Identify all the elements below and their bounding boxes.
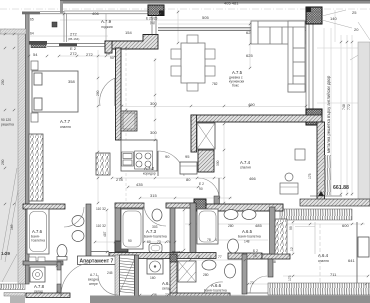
svg-text:А.7.7: А.7.7: [60, 119, 71, 124]
slab band top-left: [22, 12, 40, 15]
loggia right edge line: [105, 14, 107, 42]
sink A.7.3: [149, 244, 162, 253]
dark block A.7.3 corner: [115, 241, 128, 252]
wardrobe X closet at corridor: [197, 123, 215, 149]
svg-text:А.7.4: А.7.4: [240, 160, 251, 165]
right terrain strip: [358, 42, 370, 202]
toilet A.7.6: [57, 245, 67, 258]
bidet A.7.6: [72, 231, 84, 242]
svg-text:173: 173: [288, 275, 292, 281]
wall right of A.7.3: [170, 208, 175, 253]
A.6.6 bottom wall: [170, 293, 230, 298]
staircase left hatch: [115, 255, 120, 303]
A.6.4 bottom wall line: [246, 292, 370, 294]
column right-top: [306, 7, 322, 24]
ground slab under court: [300, 199, 370, 206]
svg-text:64: 64: [30, 32, 34, 36]
sinks A.6.5: [224, 210, 238, 220]
svg-text:272: 272: [70, 51, 77, 56]
svg-text:303: 303: [152, 225, 158, 229]
terrain top cap: [0, 29, 26, 34]
toilet A.6.5: [228, 239, 239, 253]
svg-text:А.7.8: А.7.8: [34, 284, 45, 289]
sofa L-shape: [251, 21, 305, 92]
svg-text:435: 435: [136, 182, 143, 187]
window grate hatch right of wall: [325, 155, 332, 195]
wall right of A.7.6: [86, 204, 91, 261]
dressing table A74: [280, 183, 298, 194]
svg-text:70: 70: [196, 255, 200, 259]
wall top of A.7.6: [23, 204, 65, 209]
svg-text:175: 175: [308, 173, 312, 179]
svg-text:входно: входно: [88, 278, 99, 282]
door arc A.7.3: [144, 204, 166, 226]
svg-text:антре: антре: [89, 282, 98, 286]
svg-text:487: 487: [103, 231, 107, 237]
right window wall glazing: [306, 24, 313, 110]
svg-text:490: 490: [248, 102, 255, 107]
svg-text:272: 272: [70, 32, 77, 37]
svg-text:метална решетка върху английск: метална решетка върху английски двор: [326, 75, 331, 153]
svg-text:77: 77: [176, 255, 180, 259]
hatched closet shaft A.6.4: [275, 219, 287, 254]
duct boxes in wall: [29, 257, 36, 262]
wall top of A.7.3: [115, 203, 144, 208]
closet A.6.4 right: [358, 237, 369, 257]
svg-text:95: 95: [185, 154, 190, 159]
bottom ground hatch strip: [268, 283, 370, 295]
thin line right of shaft: [314, 222, 316, 254]
svg-text:спалня: спалня: [60, 125, 71, 129]
left ramp lines: [1, 168, 17, 260]
walls A.7.8: [57, 262, 61, 270]
wall right of stair: [135, 255, 139, 303]
svg-text:А.7.2: А.7.2: [144, 166, 155, 171]
wall left of A.6.4: [268, 259, 273, 277]
left terrain hatch band: [18, 30, 26, 284]
svg-text:Е 2: Е 2: [199, 182, 204, 186]
svg-text:65: 65: [30, 18, 34, 22]
svg-text:245: 245: [107, 271, 113, 275]
shower A.6.6 square: [178, 261, 196, 282]
svg-text:74: 74: [167, 240, 171, 244]
kitchen counter: [121, 140, 157, 171]
bed A.7.7: [32, 71, 78, 112]
svg-text:А.7.1: А.7.1: [90, 273, 98, 277]
wall right of A.6.6: [242, 254, 247, 294]
svg-text:склад: склад: [162, 287, 171, 291]
svg-text:4: 4: [215, 238, 217, 242]
bedroom door arc: [100, 78, 115, 106]
wall right of A.6.5: [270, 207, 276, 254]
svg-text:90 120: 90 120: [1, 118, 11, 122]
svg-text:154: 154: [125, 30, 132, 35]
svg-text:300: 300: [216, 160, 220, 166]
svg-text:20: 20: [354, 27, 359, 32]
wall vertical bedroom/kitchen: [116, 48, 122, 140]
mid wall band right part: [91, 251, 109, 253]
svg-text:140: 140: [330, 16, 337, 21]
svg-text:1: 1: [188, 255, 190, 259]
svg-text:(щ): (щ): [150, 21, 155, 25]
svg-text:72: 72: [250, 281, 254, 285]
nightstand bottom: [31, 113, 38, 122]
svg-text:485: 485: [255, 223, 262, 228]
svg-text:782: 782: [212, 82, 218, 86]
svg-text:90: 90: [165, 154, 170, 159]
column right-mid: [306, 109, 322, 125]
svg-text:163: 163: [10, 224, 14, 230]
toilet A.7.3: [152, 209, 162, 221]
top window double line of living room: [158, 28, 306, 31]
svg-text:спалня: спалня: [318, 259, 329, 263]
fan unit A.6.7: [147, 259, 163, 274]
svg-text:А.6.5: А.6.5: [242, 229, 253, 234]
svg-text:70: 70: [253, 254, 257, 258]
svg-text:358: 358: [68, 79, 75, 84]
wall chunk right of kitchen door: [198, 150, 214, 172]
svg-text:бокс: бокс: [232, 84, 239, 88]
svg-text:466: 466: [249, 176, 256, 181]
svg-text:А.7.3: А.7.3: [146, 229, 157, 234]
wall bottom of A.7.4: [194, 204, 283, 211]
kitchen duct shaft: [121, 111, 137, 131]
sink A.7.6: [72, 216, 84, 227]
svg-text:77: 77: [218, 255, 222, 259]
wall bit below A74 door: [214, 196, 220, 204]
staircase: [120, 255, 135, 303]
svg-text:406: 406: [92, 11, 99, 16]
svg-text:290: 290: [96, 90, 100, 96]
black corner of column: [159, 11, 164, 16]
svg-text:1.29: 1.29: [1, 251, 10, 256]
A.6.4 dashed axis: [319, 224, 321, 290]
svg-text:80: 80: [186, 177, 191, 182]
kitchen sink: [122, 152, 134, 166]
court faint horizontals: [317, 47, 358, 49]
closet at bedroom right: [96, 153, 110, 175]
svg-text:Баня-тоалетна: Баня-тоалетна: [204, 289, 227, 293]
window from column down to wall: [152, 16, 156, 35]
svg-text:278: 278: [116, 177, 123, 182]
svg-text:ВТ.ОБЗ: ВТ.ОБЗ: [172, 250, 183, 254]
washing machine A.7.8: [30, 267, 45, 282]
svg-text:(95-164): (95-164): [68, 37, 79, 41]
svg-text:А.7.9: А.7.9: [101, 19, 112, 24]
top band left stub: [60, 1, 63, 13]
svg-text:90: 90: [128, 239, 132, 243]
svg-text:спалня: спалня: [240, 166, 251, 170]
loggia outline: [64, 11, 160, 42]
wall left of A.7.3: [115, 208, 121, 253]
svg-text:99: 99: [289, 226, 293, 230]
top exterior wall band: [60, 1, 370, 4]
bedroom top wall hatch piece: [31, 44, 46, 47]
svg-text:90: 90: [110, 56, 114, 60]
door arc at stair landing: [98, 275, 118, 295]
wall right of A.6.7: [170, 254, 177, 296]
left exterior wall line: [26, 12, 30, 284]
svg-text:661.88: 661.88: [333, 185, 349, 191]
svg-text:1: 1: [210, 255, 212, 259]
left bottom hatch bars: [0, 284, 25, 290]
svg-text:160: 160: [150, 276, 156, 280]
wall left of A.6.5 top: [190, 203, 196, 258]
wardrobe along left wall: [29, 134, 43, 201]
living bottom wall: [191, 115, 322, 122]
right wall of A.7.4: [317, 122, 325, 200]
svg-text:110 32: 110 32: [96, 207, 106, 211]
svg-text:тоалетна: тоалетна: [31, 239, 45, 243]
svg-text:коридор: коридор: [143, 172, 156, 176]
door arc A.7.4 entry: [198, 178, 219, 196]
svg-text:315: 315: [150, 193, 157, 198]
dim leaders top right: [322, 10, 370, 60]
bedroom top wall bar: [29, 41, 47, 45]
svg-text:772: 772: [347, 104, 351, 110]
door arc A.7.1 entry big: [61, 263, 88, 296]
bathtub A.7.3 vertical: [121, 209, 143, 249]
nightstand A74: [295, 149, 305, 160]
window sill bar 2: [59, 43, 77, 46]
svg-text:600: 600: [342, 223, 349, 228]
bottom gray band: [90, 296, 370, 303]
toilet A.6.6: [225, 264, 236, 278]
wall block left end: [105, 41, 112, 53]
svg-text:90: 90: [199, 187, 203, 191]
svg-text:641: 641: [348, 258, 355, 263]
left terrain strip: [0, 30, 18, 282]
bedroom window lines: [47, 42, 106, 44]
svg-text:12: 12: [290, 247, 294, 251]
sink A.6.6: [202, 260, 216, 270]
svg-text:лоджия: лоджия: [101, 25, 113, 29]
svg-text:110 32: 110 32: [96, 224, 106, 228]
svg-text:Баня-тоалетна: Баня-тоалетна: [144, 235, 167, 239]
svg-text:Б 2: Б 2: [253, 249, 258, 253]
door arc A.6.4 entry: [250, 276, 267, 293]
svg-text:290: 290: [1, 159, 5, 165]
svg-text:78: 78: [207, 238, 211, 242]
svg-text:748: 748: [342, 104, 346, 110]
bathtub A.7.6: [27, 209, 49, 254]
column cross hatched at corridor bottom: [194, 199, 206, 210]
svg-text:250: 250: [1, 79, 5, 85]
svg-text:300: 300: [150, 130, 157, 135]
column top (concrete): [148, 5, 164, 16]
svg-text:272: 272: [86, 52, 93, 57]
kitchen door arc: [158, 151, 184, 176]
wall top-left of apartment (loggia back wall): [105, 35, 158, 50]
svg-text:А.7.5: А.7.5: [232, 70, 243, 75]
svg-text:А.6.4: А.6.4: [318, 253, 329, 258]
chairs around table: [171, 35, 215, 91]
hall cabinet: [180, 162, 197, 174]
svg-text:280: 280: [228, 224, 234, 228]
nightstand top: [31, 61, 38, 70]
tub A.6.5 vertical: [197, 209, 218, 244]
svg-text:А.7.6: А.7.6: [32, 229, 43, 234]
grate hatch strip horizontal: [280, 209, 352, 220]
svg-text:405 481: 405 481: [224, 1, 239, 6]
svg-text:Баня-тоалетна: Баня-тоалетна: [238, 235, 261, 239]
wall vertical left of A.7.4 top: [191, 115, 197, 152]
svg-text:148: 148: [244, 240, 250, 244]
svg-text:280: 280: [203, 273, 209, 277]
small panel box: [52, 22, 57, 27]
svg-text:505: 505: [202, 15, 209, 20]
svg-text:300: 300: [150, 101, 157, 106]
door arc A.7.6: [64, 207, 84, 227]
A.6.4 right wall line: [356, 222, 358, 290]
svg-text:54: 54: [33, 52, 38, 57]
svg-text:711: 711: [330, 272, 337, 277]
door arc A.6.6: [204, 282, 223, 293]
dining table: [181, 43, 205, 83]
kitchen stove 4 burners: [135, 151, 153, 169]
svg-text:решетка: решетка: [1, 123, 14, 127]
svg-text:625: 625: [246, 53, 253, 58]
apartment label: [78, 256, 117, 265]
A.7.6 bottom wall: [23, 261, 63, 265]
svg-text:25: 25: [352, 10, 357, 15]
